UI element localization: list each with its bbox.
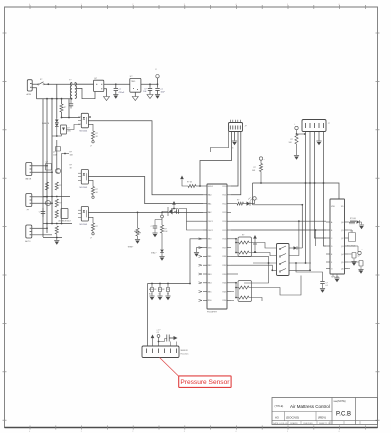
svg-text:RB2: RB2	[208, 265, 212, 267]
svg-text:C4: C4	[157, 332, 159, 334]
svg-text:DATE: 4-JUL-05: DATE: 4-JUL-05	[273, 422, 288, 425]
bus line y237	[43, 237, 62, 239]
wire long net RC0b	[253, 204, 304, 206]
svg-text:Q6: Q6	[341, 268, 344, 270]
ground C8	[147, 95, 153, 99]
svg-text:104: 104	[143, 91, 146, 93]
wire xtal node2	[187, 221, 204, 230]
svg-text:Q3: Q3	[341, 246, 344, 248]
resistor R17 LED	[348, 218, 362, 225]
power port VCC net	[259, 157, 264, 161]
svg-text:RC5: RC5	[223, 230, 227, 232]
test point circle	[161, 212, 164, 218]
ground U3 bottom	[334, 274, 339, 282]
svg-text:L?: L?	[90, 238, 92, 240]
svg-text:R?: R?	[291, 139, 293, 141]
wire long net RC1	[231, 229, 326, 231]
wire net183 drop left	[252, 183, 254, 205]
connector J7 header	[302, 120, 331, 132]
resistor R14 LED series	[231, 200, 244, 206]
svg-text:see(NOTE): see(NOTE)	[334, 400, 346, 403]
node rail junction C8	[149, 83, 151, 85]
ground button 2	[157, 296, 162, 300]
svg-text:RB3: RB3	[208, 274, 212, 276]
svg-text:Q0: Q0	[341, 222, 344, 224]
U1 pin arrows left	[199, 238, 203, 302]
svg-text:RC3: RC3	[223, 212, 227, 214]
svg-text:R?: R?	[237, 200, 239, 202]
resistor R15	[289, 134, 299, 155]
U3 part label	[331, 276, 339, 278]
svg-text:TRIM?: TRIM?	[128, 247, 134, 249]
wire vertical net F	[68, 99, 70, 118]
node pack1 feed	[231, 238, 237, 254]
transistor Q7	[348, 261, 363, 273]
svg-text:L?: L?	[90, 146, 92, 148]
wire button bus	[148, 283, 191, 285]
svg-text:ASTABLE.MULT: ASTABLE.MULT	[59, 220, 71, 223]
svg-text:R?: R?	[59, 203, 61, 205]
power port U3	[348, 246, 363, 255]
svg-text:C?: C?	[151, 226, 153, 228]
resistor R11 below opto3	[88, 217, 97, 239]
wire S1 row4 right	[289, 269, 311, 271]
svg-text:RB0: RB0	[208, 239, 212, 241]
title block text PCB	[336, 412, 351, 418]
wire transformer secondary top to bridge	[75, 83, 94, 85]
op-amp U3 driver IC	[326, 199, 348, 274]
svg-text:XTAL?: XTAL?	[151, 252, 156, 255]
svg-text:MOC3041: MOC3041	[80, 187, 88, 189]
bus line y223	[43, 223, 72, 225]
title block text DOCNO	[286, 416, 299, 420]
svg-text:RA0: RA0	[208, 194, 212, 197]
capacitor across line	[69, 99, 73, 109]
node trim tap	[137, 212, 139, 214]
wire J3 pin1	[32, 165, 48, 167]
wire net D lower	[56, 140, 58, 169]
ground regulator	[132, 97, 138, 101]
node top wire junction	[47, 83, 49, 85]
svg-text:CHECKED: CHECKED	[303, 423, 313, 425]
resistor R4	[45, 182, 48, 190]
svg-text:(DOCNO): (DOCNO)	[286, 416, 299, 420]
wire J7 pin1 down	[305, 132, 307, 264]
ground trim	[135, 240, 140, 244]
svg-text:MCLR: MCLR	[208, 186, 214, 188]
wire vertical x302	[301, 205, 303, 248]
svg-text:LED: LED	[67, 130, 71, 132]
svg-text:C?: C?	[161, 89, 163, 91]
ground Q6	[351, 262, 356, 266]
capacitor C16	[320, 282, 328, 288]
svg-text:MOC3041: MOC3041	[80, 224, 88, 226]
node rail junction C5	[115, 83, 117, 85]
svg-text:RD0: RD0	[208, 300, 212, 302]
wire S1 row2 right	[289, 220, 300, 255]
U1 part label	[207, 312, 218, 314]
wire R8 to bus	[56, 234, 58, 240]
node Y3	[62, 153, 70, 155]
transistor Q6	[348, 253, 360, 262]
svg-text:Q?: Q?	[358, 256, 360, 258]
svg-text:Q?: Q?	[53, 152, 56, 154]
wire switch to transformer	[44, 83, 94, 85]
svg-text:RD1: RD1	[223, 256, 227, 258]
bus line y196	[43, 196, 70, 198]
capacitor C14 sensor	[157, 335, 164, 346]
wire RP2 out2	[249, 298, 262, 302]
label buttons row2	[149, 294, 169, 296]
node button bus taps	[151, 283, 169, 285]
ground C13	[152, 233, 157, 237]
wire U3 bottom cap net	[295, 262, 333, 281]
wire U3 pin7 stub	[348, 268, 350, 270]
wire bridge output rail	[104, 83, 130, 85]
svg-text:PIC16F877: PIC16F877	[207, 312, 218, 314]
resistor R6	[55, 199, 61, 207]
arrow sensor out	[169, 336, 177, 346]
svg-text:Press.Sen: Press.Sen	[181, 353, 189, 356]
transistor Q5	[231, 247, 252, 249]
wire J1 pin1 to switch	[32, 83, 38, 85]
node bus1 junctions	[46, 98, 72, 100]
callout leader line	[160, 358, 181, 378]
svg-text:0.1: 0.1	[326, 285, 329, 287]
svg-text:+: +	[362, 249, 363, 251]
resistor R8	[55, 226, 58, 234]
connector J5 AUTO	[25, 225, 32, 243]
capacitor C5 470uF	[114, 84, 125, 94]
svg-text:Q2: Q2	[341, 238, 344, 240]
wire J3 pin3	[32, 171, 53, 173]
svg-text:R?: R?	[96, 189, 98, 191]
svg-text:BU/S2K: BU/S2K	[159, 289, 166, 291]
svg-text:R?: R?	[96, 226, 98, 228]
diode D1 D2 pair	[55, 118, 59, 136]
resistor pack RP1	[236, 235, 252, 257]
LED D5	[244, 198, 253, 206]
switch SW2 button	[150, 284, 153, 296]
power arrow sensor pin2	[151, 335, 155, 347]
label TRIM	[128, 247, 134, 249]
svg-text:Q?: Q?	[46, 162, 48, 164]
crystal X1 arrow	[162, 207, 173, 216]
title block text TITLE	[275, 404, 284, 408]
ground LED	[359, 225, 364, 229]
resistor pack RP2	[236, 281, 252, 302]
opto-isolator U6	[78, 207, 88, 226]
wire J4 pin3	[32, 202, 53, 204]
wire J5 pin3	[32, 234, 52, 236]
label R 10K	[70, 152, 74, 157]
svg-text:C?: C?	[326, 283, 328, 285]
ground J2 pin2	[232, 141, 237, 150]
svg-text:Pressure Sensor: Pressure Sensor	[180, 379, 230, 386]
callout box Pressure Sensor	[179, 376, 231, 388]
wire U1 R9 bend	[231, 256, 269, 283]
svg-text:VDD: VDD	[331, 206, 336, 208]
svg-text:Q1: Q1	[341, 230, 344, 232]
LED D3 block	[61, 125, 72, 134]
title block frame	[272, 398, 378, 425]
capacitor C11 block	[348, 230, 356, 242]
label sensor	[181, 350, 189, 356]
wire vertical net A	[42, 99, 44, 238]
svg-text:VALVE: VALVE	[25, 178, 32, 181]
title block text REV	[318, 416, 326, 420]
resistor R13	[160, 225, 168, 249]
wire vertical x315	[315, 229, 317, 246]
wire x298 drop	[298, 205, 300, 256]
svg-text:RC1: RC1	[223, 195, 227, 197]
svg-text:+: +	[264, 159, 265, 161]
wire vertical net C	[51, 99, 53, 224]
ground C16	[320, 289, 325, 293]
svg-text:OSC2: OSC2	[208, 230, 213, 232]
svg-text:RB5: RB5	[208, 291, 212, 293]
title block text Air Mattress Control	[290, 404, 330, 409]
svg-text:S?: S?	[167, 294, 169, 296]
svg-text:RC7: RC7	[223, 247, 227, 249]
connector J4 PUMP	[26, 194, 32, 212]
wire S1 row1 right arrow	[289, 246, 302, 250]
ground C9	[155, 95, 160, 99]
label GND_TOP cluster	[53, 152, 57, 157]
resistor R9 below opto1	[88, 124, 98, 147]
node rail junction C9	[157, 83, 159, 85]
opto-isolator U5	[78, 170, 88, 189]
wire opto2 out to IC pin L3	[88, 177, 203, 204]
power port VCC J7	[294, 124, 306, 135]
op-amp U1 microcontroller PIC16F877	[203, 184, 231, 309]
svg-text:RD5: RD5	[223, 291, 227, 293]
capacitor C12	[174, 209, 181, 214]
svg-text:RC2: RC2	[223, 203, 227, 205]
label R 1K left	[70, 165, 73, 170]
switch SW1	[38, 79, 45, 85]
wire U1 R11 stub	[231, 273, 238, 275]
ground left column	[54, 241, 59, 245]
svg-text:RD3: RD3	[223, 274, 227, 276]
svg-text:RD6: RD6	[223, 300, 227, 302]
title block text see NOTE	[334, 400, 346, 403]
diode D4	[151, 250, 164, 257]
svg-text:DRAWN: DRAWN	[290, 422, 298, 425]
wire opto1 out to IC pin L2	[88, 121, 203, 195]
wire S1 row3 right	[289, 262, 311, 264]
ground U1 VSS	[194, 248, 203, 257]
wire bridge neg to ground	[104, 89, 107, 97]
wire net E lower	[61, 154, 63, 224]
svg-text:RD2: RD2	[223, 265, 227, 267]
resistor R7	[55, 210, 58, 218]
label PVALVE	[42, 122, 50, 125]
resistor R12 TRIM	[134, 212, 141, 239]
power port LED	[250, 197, 258, 204]
svg-text:R? 1K: R? 1K	[187, 182, 193, 184]
svg-text:RB4: RB4	[208, 283, 212, 285]
transistor Q5 glyph	[253, 244, 257, 253]
node opto1 pin dot	[89, 116, 91, 118]
svg-text:+: +	[257, 199, 258, 201]
wire J7 pin2 down	[309, 132, 311, 271]
svg-text:C?: C?	[39, 212, 41, 214]
wire transformer secondary bottom route	[75, 86, 95, 99]
wire J7 pin3 down	[314, 132, 326, 239]
label C cluster	[157, 330, 161, 335]
capacitor C10	[39, 208, 45, 217]
connector J1 AC input	[27, 80, 33, 96]
wire bus net183	[253, 182, 340, 199]
node Y1	[61, 117, 70, 119]
capacitor C9 10uF	[155, 84, 165, 94]
wire bus left drop to sensor	[147, 284, 149, 347]
resistor R1 MCLR pullup	[182, 180, 203, 188]
svg-text:ACIN: ACIN	[27, 93, 32, 96]
connector J6 pressure sensor	[142, 346, 179, 358]
svg-text:RC0: RC0	[223, 186, 227, 188]
power arrow Q5	[253, 235, 257, 244]
wire J2 pin0 route	[211, 132, 229, 153]
capacitor C13	[151, 218, 163, 233]
wire RP2 out1	[249, 276, 301, 296]
wire J2 pin1 to U1 top	[199, 132, 231, 187]
svg-text:(TITLE): (TITLE)	[275, 404, 284, 408]
ground Q7	[358, 270, 363, 274]
resistor R5	[55, 182, 61, 190]
wire J7 pin4 gnd	[318, 132, 320, 141]
title block footer microtext	[273, 422, 333, 425]
power arrow MCLR	[180, 176, 184, 180]
ground button 3	[165, 296, 170, 300]
wire vertical net E	[61, 99, 63, 105]
svg-text:Air Mattress Control: Air Mattress Control	[290, 404, 330, 409]
transistor Q3	[55, 168, 60, 173]
svg-text:RB1: RB1	[208, 256, 212, 258]
wire vertical net D	[56, 85, 58, 119]
wire J5 pin1	[32, 227, 48, 229]
svg-text:R? LED: R? LED	[350, 218, 357, 220]
svg-text:RA1: RA1	[208, 202, 212, 205]
svg-text:C11: C11	[350, 231, 353, 233]
capacitor C15 sensor	[165, 335, 170, 342]
svg-text:ACM/S2K: ACM/S2K	[149, 288, 157, 291]
wire J4 pin1	[32, 196, 48, 198]
svg-text:A3: A3	[275, 416, 279, 420]
wire U1 R14 stub	[231, 292, 234, 301]
resistor R10 below opto2	[88, 180, 98, 198]
wire J7 pin5 down	[324, 132, 327, 247]
component Q1 small	[56, 147, 61, 152]
wire RP1 row1 to switch	[249, 243, 277, 249]
connector J3 VALVE	[25, 163, 32, 181]
ground button 1	[149, 296, 154, 300]
switch SW3 button	[158, 284, 161, 296]
ground D4	[159, 257, 164, 261]
svg-text:RC4: RC4	[223, 221, 227, 223]
title block text A3	[275, 416, 279, 420]
svg-text:R?: R?	[164, 229, 166, 231]
node pack2 feed	[231, 282, 237, 299]
svg-text:PVALVE: PVALVE	[42, 122, 50, 125]
node Y2	[52, 134, 62, 137]
svg-text:(REV): (REV)	[318, 416, 326, 420]
svg-text:R?: R?	[59, 185, 61, 187]
resistor R2	[60, 104, 66, 112]
wire opto3 out to IC pin L4	[88, 211, 203, 213]
svg-text:P?: P?	[27, 210, 29, 212]
component Q2 box	[46, 162, 52, 171]
wire opto1 pin2 link	[67, 125, 81, 130]
connector J2 LCD	[229, 120, 248, 132]
svg-text:R?: R?	[64, 107, 66, 109]
ground J7 pin4	[316, 141, 321, 145]
svg-text:RC6: RC6	[223, 239, 227, 241]
opto-isolator U4	[78, 113, 88, 132]
wire J1 pin2 down to bus	[32, 88, 36, 99]
svg-text:R?: R?	[242, 235, 244, 237]
wire U1 L7 net	[190, 239, 203, 284]
svg-text:AUTO: AUTO	[25, 240, 31, 243]
svg-text:RD4: RD4	[223, 283, 227, 285]
svg-text:R?: R?	[96, 133, 98, 135]
label TJL	[347, 246, 356, 248]
wire RP1 row2 to switch	[249, 253, 277, 256]
svg-text:RA2: RA2	[208, 211, 212, 214]
wire regulator output rail	[141, 83, 158, 85]
label buttons row1	[149, 288, 170, 291]
wire vertical net B	[46, 99, 48, 234]
svg-text:MOC3041: MOC3041	[80, 131, 88, 133]
regulator U2 7805	[130, 76, 141, 92]
svg-text:BU?: BU?	[149, 294, 152, 296]
wire R2 to node	[61, 112, 63, 118]
U1 pin labels	[208, 186, 227, 302]
wire D3 to opto1 pin2	[63, 125, 65, 135]
wire regulator gnd stem	[134, 92, 136, 96]
bridge rectifier B1	[94, 78, 104, 92]
svg-text:R?: R?	[254, 167, 256, 169]
power arrow xtal	[171, 201, 178, 209]
svg-text:Q4: Q4	[341, 254, 344, 256]
resistor R16	[252, 160, 263, 184]
wire to opto1 pin1	[62, 117, 81, 119]
transformer T1	[69, 80, 77, 99]
svg-text:R?: R?	[70, 152, 72, 154]
switch S1 DIP block	[277, 244, 290, 276]
wire J2 pin4 to U1 R2	[231, 132, 241, 195]
component U timer box	[59, 209, 71, 223]
capacitor C8 104	[143, 84, 152, 94]
svg-text:SHEET 1 OF 1: SHEET 1 OF 1	[319, 423, 333, 425]
svg-text:OSC1: OSC1	[208, 221, 213, 223]
svg-text:SENSOR: SENSOR	[181, 350, 189, 352]
svg-text:P.C.B: P.C.B	[336, 412, 351, 418]
svg-text:470uF: 470uF	[119, 92, 125, 94]
transistor Q4	[45, 200, 50, 205]
wire bus1 lower AC bus	[37, 98, 72, 100]
wire xtal node	[181, 209, 203, 222]
svg-text:S?: S?	[40, 79, 42, 81]
wire J2 pin2 gnd	[234, 132, 236, 141]
wire J2 pin3 to U1 R1	[231, 132, 238, 187]
node xtal junction	[161, 212, 163, 214]
wire S1 row4 left	[272, 269, 276, 271]
switch SW4 button	[166, 284, 169, 296]
svg-text:S?: S?	[159, 294, 161, 296]
ground C5	[113, 95, 118, 99]
